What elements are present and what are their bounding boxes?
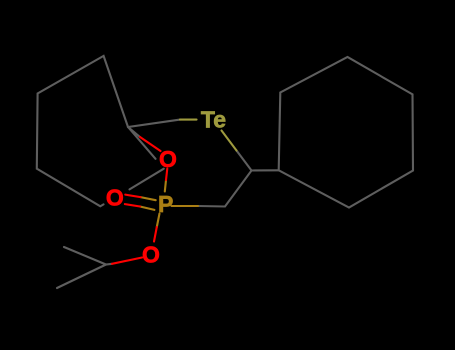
svg-text:O: O <box>159 146 177 172</box>
svg-text:Te: Te <box>201 107 226 133</box>
svg-text:O: O <box>106 185 124 211</box>
svg-text:P: P <box>158 191 173 217</box>
svg-text:O: O <box>142 242 160 268</box>
